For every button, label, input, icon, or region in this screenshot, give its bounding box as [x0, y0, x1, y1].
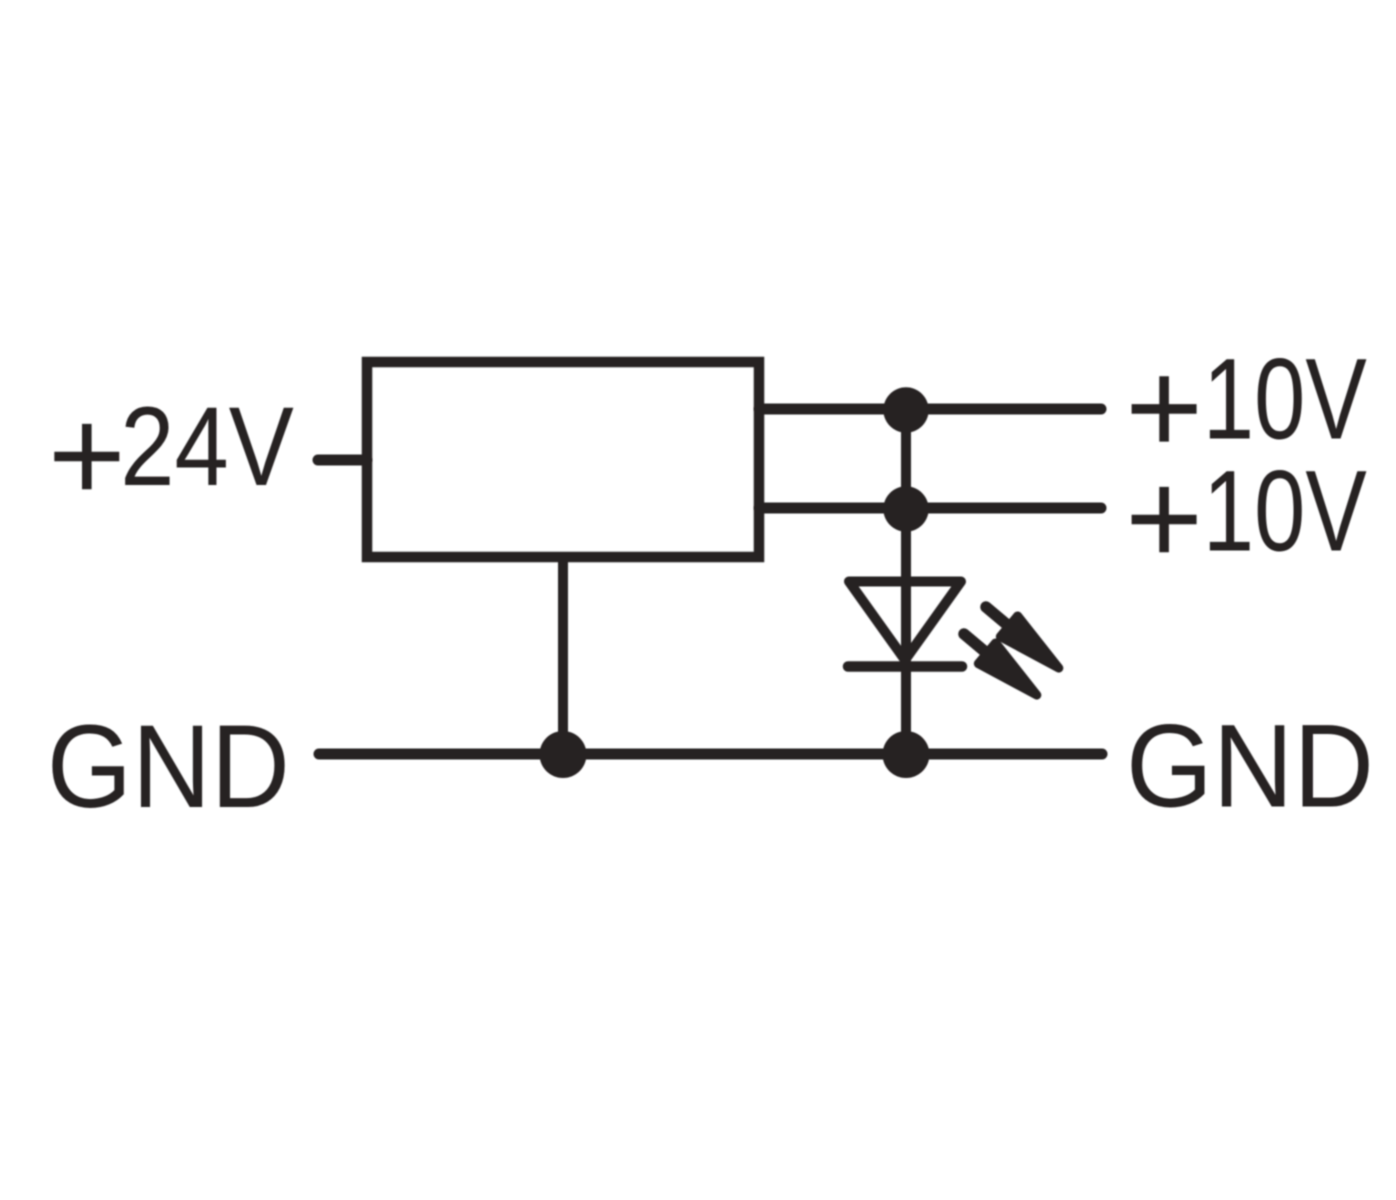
LED triangle (anode) — [849, 582, 961, 661]
node: +10V junction (top) — [883, 387, 928, 432]
svg-text:+: + — [48, 381, 126, 530]
node: +10V junction (bottom) — [883, 486, 928, 531]
node: GND junction under LED — [883, 731, 930, 778]
svg-text:GND: GND — [1126, 700, 1374, 832]
wire: +24V lead into converter — [318, 455, 367, 466]
DC/DC converter box — [367, 362, 759, 557]
node: GND junction under converter — [540, 731, 587, 778]
LED cathode bar — [848, 661, 962, 672]
wire: converter 0V down to GND rail — [558, 557, 568, 754]
wire: vertical from +10V node through LED to GND — [901, 409, 911, 754]
svg-text:24V: 24V — [120, 384, 294, 509]
wire: +10V output lead (top) — [759, 404, 1101, 415]
svg-text:10V: 10V — [1203, 447, 1367, 575]
wire: GND rail — [319, 749, 1102, 760]
wire: +10V output lead (bottom) — [759, 503, 1101, 514]
LED light arrow (upper) — [977, 597, 1067, 679]
svg-text:GND: GND — [47, 701, 290, 833]
svg-text:+: + — [1125, 444, 1203, 593]
LED light arrow (lower) — [955, 624, 1045, 706]
svg-text:10V: 10V — [1203, 336, 1367, 464]
